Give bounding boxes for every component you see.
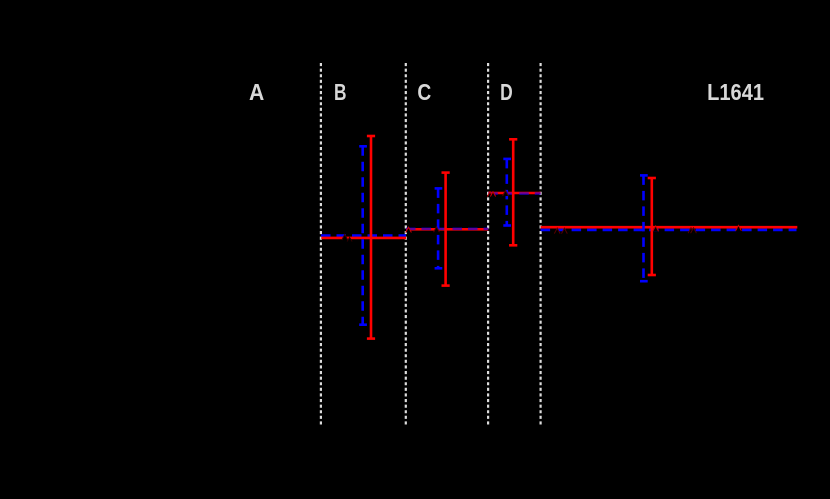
- triangle marker D x=493.0: [490, 192, 495, 197]
- region boundary dotted line x=488: [487, 63, 489, 426]
- svg-text:A: A: [249, 79, 264, 105]
- blue dashed mean line region L1641: [541, 229, 797, 232]
- red mean line region C: [406, 228, 488, 231]
- region boundary dotted line x=321: [320, 63, 322, 426]
- triangle marker D x=505.5: [503, 191, 509, 197]
- red error bar region C: [442, 173, 450, 286]
- red mean line region B: [321, 237, 406, 240]
- svg-text:D: D: [500, 79, 513, 105]
- red error bar region D: [509, 139, 517, 245]
- triangle marker L1641 x=655.6: [653, 226, 659, 231]
- blue error bar region D: [503, 159, 511, 226]
- triangle marker L1641 x=691.0: [688, 228, 694, 233]
- red mean line region L1641: [541, 226, 798, 229]
- region boundary dotted line x=406: [405, 63, 407, 426]
- blue dashed median line region C (overlapping red, purple blend): [406, 228, 488, 231]
- triangle marker D x=490.0: [487, 192, 492, 197]
- triangle marker L1641 x=693.5: [691, 228, 697, 233]
- blue error bar region L1641: [640, 175, 648, 281]
- triangle marker L1641 x=738.5: [736, 225, 742, 230]
- triangle marker B x=349.6: [347, 237, 352, 241]
- triangle marker B x=344.8: [342, 234, 348, 240]
- blue dashed median line region D (overlapping red, purple blend): [488, 192, 540, 195]
- blue error bar region C: [435, 188, 443, 268]
- triangle marker C x=436.5: [434, 227, 440, 232]
- red mean line region D: [488, 192, 540, 195]
- region boundary dotted line x=540.6: [539, 63, 541, 426]
- triangle marker C x=408.5: [406, 227, 412, 232]
- svg-text:B: B: [334, 79, 347, 105]
- triangle marker L1641 x=557.2: [554, 228, 560, 233]
- triangle marker L1641 x=564.4: [562, 228, 568, 233]
- svg-text:C: C: [417, 79, 431, 105]
- svg-text:L1641: L1641: [707, 79, 764, 105]
- red error bar region B: [367, 136, 375, 339]
- red error bar region L1641: [648, 178, 656, 275]
- blue error bar region B: [359, 146, 367, 324]
- blue dashed mean line region B: [321, 234, 406, 237]
